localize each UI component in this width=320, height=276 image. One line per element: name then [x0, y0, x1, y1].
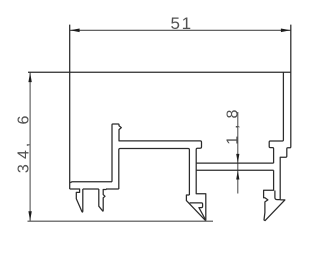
svg-text:5: 5	[170, 14, 179, 33]
svg-text:4: 4	[15, 150, 32, 159]
svg-text:1: 1	[182, 14, 191, 33]
svg-text:3: 3	[15, 164, 32, 173]
svg-text:6: 6	[15, 115, 32, 124]
svg-text:,: ,	[225, 125, 242, 129]
svg-text:1: 1	[225, 136, 242, 145]
svg-text:8: 8	[225, 110, 242, 119]
svg-text:,: ,	[15, 143, 32, 147]
